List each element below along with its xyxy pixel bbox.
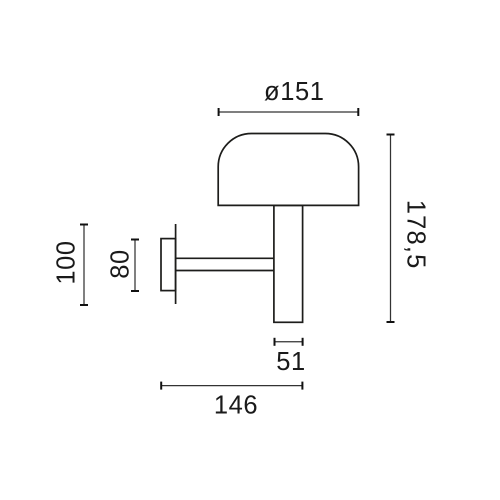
dimension line 146 <box>161 385 302 387</box>
lamp stem <box>274 205 303 322</box>
wall plate body <box>161 239 176 291</box>
dimension line 80 <box>134 240 136 292</box>
svg-text:ø151: ø151 <box>264 78 325 106</box>
svg-text:51: 51 <box>276 348 306 376</box>
svg-text:178,5: 178,5 <box>401 200 429 270</box>
dimension line 100 <box>83 225 85 306</box>
tick 146 right <box>301 382 303 390</box>
dimension line 178,5 <box>390 135 392 323</box>
svg-text:100: 100 <box>53 240 81 284</box>
svg-text:80: 80 <box>107 249 135 279</box>
arm top line <box>176 257 274 259</box>
tick 80 bottom <box>131 290 139 292</box>
lamp shade dome <box>218 134 358 206</box>
tick 178,5 top <box>387 134 395 136</box>
tick o151 left <box>218 108 220 116</box>
tick o151 right <box>357 108 359 116</box>
tick 51 left <box>274 338 276 346</box>
tick 146 left <box>160 382 162 390</box>
dimension line o151 <box>219 111 359 113</box>
tick 100 top <box>80 224 88 226</box>
svg-text:146: 146 <box>214 392 258 420</box>
tick 100 bottom <box>80 304 88 306</box>
dimension line 51 <box>275 341 303 343</box>
tick 178,5 bottom <box>387 321 395 323</box>
tick 51 right <box>302 338 304 346</box>
tick 80 top <box>131 239 139 241</box>
wall plate front line <box>175 224 177 304</box>
arm bottom line <box>176 270 274 272</box>
